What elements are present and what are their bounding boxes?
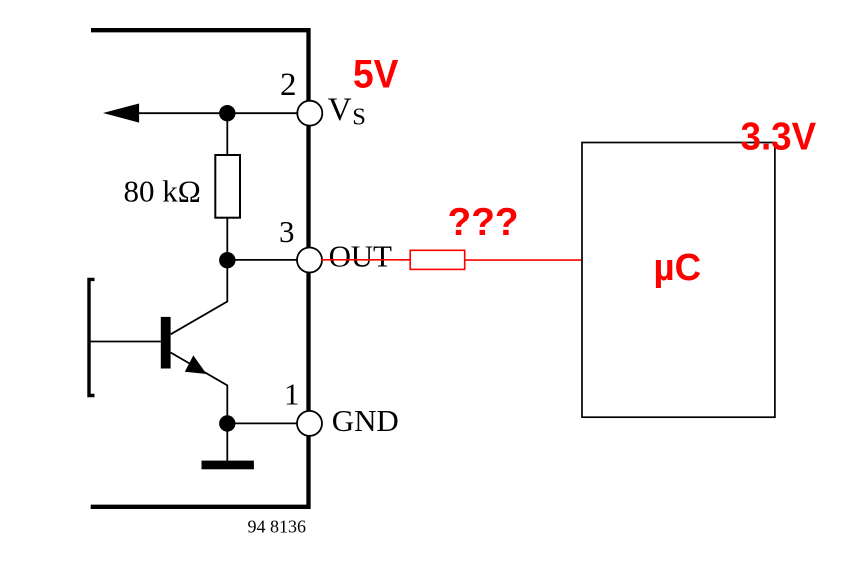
svg-text:5V: 5V xyxy=(353,52,399,97)
svg-text:S: S xyxy=(352,104,366,131)
collector wire xyxy=(171,262,228,334)
sensor outline box xyxy=(91,30,309,507)
ground xyxy=(202,461,254,470)
svg-text:GND: GND xyxy=(332,403,399,438)
svg-text:3.3V: 3.3V xyxy=(741,115,817,158)
svg-text:µC: µC xyxy=(654,245,702,288)
svg-text:3: 3 xyxy=(279,214,295,249)
microcontroller box U1 xyxy=(582,143,775,418)
wire to ground symbol xyxy=(226,424,228,461)
junction node A (VS rail) xyxy=(219,105,235,121)
emitter wire xyxy=(171,353,228,424)
wire node C to pin 1 xyxy=(227,422,297,424)
svg-text:80 kΩ: 80 kΩ xyxy=(124,174,201,209)
transistor Q1 base bar xyxy=(161,317,171,369)
svg-text:1: 1 xyxy=(284,377,300,412)
pin 3 circle xyxy=(297,248,322,273)
wire resistor top xyxy=(226,113,228,156)
resistor R1 80 kOhm body xyxy=(215,155,240,218)
svg-text:OUT: OUT xyxy=(329,239,392,274)
emitter arrowhead xyxy=(185,355,207,374)
wire VS rail to arrow xyxy=(120,112,297,114)
svg-text:???: ??? xyxy=(448,201,519,244)
field plate bracket xyxy=(89,279,95,395)
series resistor R2 body (red) xyxy=(410,250,465,269)
svg-text:2: 2 xyxy=(280,67,297,103)
base wire xyxy=(90,341,161,343)
svg-text:94 8136: 94 8136 xyxy=(248,517,307,537)
junction node C (GND) xyxy=(219,415,235,431)
wire resistor bottom xyxy=(226,218,228,260)
arrowhead left xyxy=(103,104,139,123)
wire OUT pin to series resistor (red) xyxy=(321,259,410,261)
svg-text:V: V xyxy=(328,92,352,128)
pin 1 circle xyxy=(297,411,322,436)
pin 2 circle xyxy=(297,101,322,126)
wire series resistor to microcontroller (red) xyxy=(465,259,582,261)
wire node B to pin 3 xyxy=(227,259,297,261)
junction node B (OUT) xyxy=(219,252,235,268)
